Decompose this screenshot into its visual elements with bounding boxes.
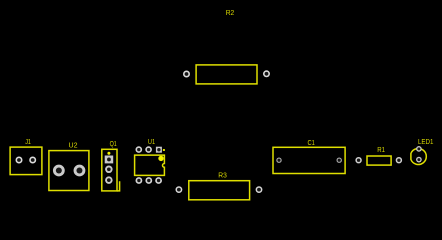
IC U2 outline [49,151,89,191]
IC U1 pin-1 dot [158,156,163,161]
svg-text:R2: R2 [226,8,235,17]
pad Q1-1 (square) [105,156,114,164]
resistor R1 outline [367,156,391,165]
connector J1 outline [10,147,42,175]
pad Q1-3 [105,176,113,184]
svg-text:Q1: Q1 [110,139,117,148]
pad U1-5 [145,146,152,153]
svg-text:J1: J1 [25,137,31,146]
pad C1-2 [337,158,342,163]
pad R2-1 [183,71,190,78]
pad R2-2 [263,70,270,77]
svg-text:U1: U1 [148,137,155,146]
svg-text:R1: R1 [377,145,385,154]
svg-text:U2: U2 [69,140,78,149]
transistor Q1 outline [102,149,117,191]
pad U1-6 [136,146,143,153]
resistor R2 outline [196,65,257,84]
pad LED1-1 [416,146,422,152]
pad LED1-2 [416,157,422,163]
pad U1-1 [136,177,143,184]
resistor R3 outline [189,181,250,200]
pad R1-2 [396,157,402,163]
pad U2-2 [74,165,86,177]
pad Q1-2 [105,166,113,174]
transistor Q1 pin-1 dot [107,152,110,155]
pad U1-2 [145,177,152,184]
pad U2-1 [53,165,65,177]
pad R3-1 [176,186,183,193]
LED LED1 circle outline with flat [411,149,426,165]
svg-text:LED1: LED1 [418,137,433,146]
pad U1-4 (square) [156,147,162,153]
svg-text:C1: C1 [308,138,315,147]
IC U1 body outline with notch [135,155,165,175]
capacitor C1 outline [273,147,345,173]
pad J1-2 [29,157,36,164]
U1 silk dash marker [163,149,165,151]
svg-text:R3: R3 [218,170,227,179]
pad R3-2 [256,186,263,193]
pad C1-1 [276,158,281,163]
transistor Q1 tab line [117,181,120,191]
pad R1-1 [355,157,361,163]
pad U1-3 [155,177,162,184]
pad J1-1 [16,157,23,164]
